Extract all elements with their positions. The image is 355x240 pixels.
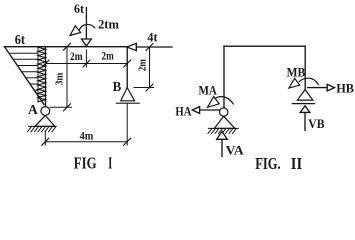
dimension 4m line xyxy=(45,141,127,143)
svg-text:MB: MB xyxy=(287,65,306,79)
svg-text:MA: MA xyxy=(199,83,217,97)
reaction HA arrowhead xyxy=(192,107,199,114)
svg-text:VB: VB xyxy=(308,117,324,131)
dimension 2m right tick bottom xyxy=(146,84,153,91)
force 4t arrowhead xyxy=(127,43,137,50)
dimension tick left xyxy=(42,60,49,67)
svg-text:4t: 4t xyxy=(147,30,158,45)
dimension 3m line xyxy=(66,47,68,108)
svg-text:II: II xyxy=(291,154,303,173)
moment MB arrowhead xyxy=(289,78,300,88)
svg-text:2m: 2m xyxy=(137,59,148,72)
support A hatching xyxy=(208,128,238,133)
svg-text:FIG.: FIG. xyxy=(255,154,281,173)
svg-text:FIG: FIG xyxy=(74,154,97,173)
dimension 3m extension line at A xyxy=(50,106,72,108)
reaction HB arrowhead xyxy=(327,84,334,91)
dimension 2m right line xyxy=(149,47,151,88)
dimension 2m separator xyxy=(85,50,87,67)
distributed load arrow zigzag xyxy=(38,47,46,102)
support triangle at A xyxy=(214,116,235,128)
svg-text:A: A xyxy=(28,103,39,118)
dimension 2m right extension line xyxy=(134,87,154,89)
moment 2tm arrowhead xyxy=(70,26,81,36)
support triangle at B xyxy=(297,90,313,101)
svg-text:B: B xyxy=(113,79,122,94)
reaction VA line xyxy=(221,139,223,156)
svg-text:2m: 2m xyxy=(70,49,83,63)
force 6t arrowhead xyxy=(82,39,92,46)
svg-text:4m: 4m xyxy=(80,129,94,143)
support B roller line xyxy=(292,103,314,105)
svg-text:HA: HA xyxy=(175,104,191,118)
svg-text:HB: HB xyxy=(336,81,354,95)
svg-text:2tm: 2tm xyxy=(98,16,119,31)
left column member xyxy=(45,47,47,107)
distributed load inner edge xyxy=(37,47,39,102)
moment MA arrowhead xyxy=(208,97,220,108)
right column member xyxy=(126,47,128,88)
force 6t line xyxy=(85,8,87,40)
svg-text:VA: VA xyxy=(226,143,244,157)
dimension 2m+2m line xyxy=(46,63,128,65)
reaction VB arrowhead xyxy=(300,106,310,113)
dimension tick middle xyxy=(83,60,90,67)
distributed load hatch lines xyxy=(9,53,40,96)
moment MB arc xyxy=(299,78,318,84)
moment 2tm arc xyxy=(79,25,94,30)
dimension 3m tick bottom xyxy=(64,104,71,111)
extension line below B xyxy=(126,103,128,145)
frame right column xyxy=(304,46,306,89)
support B triangle xyxy=(121,88,135,101)
frame left column xyxy=(223,46,225,108)
svg-text:2m: 2m xyxy=(102,49,114,63)
distributed load hypotenuse xyxy=(5,47,45,105)
support A base hatching xyxy=(28,126,57,131)
reaction HB line xyxy=(308,87,328,89)
force 4t line xyxy=(137,46,173,48)
svg-text:6t: 6t xyxy=(15,32,26,47)
frame top beam xyxy=(224,45,305,47)
dimension 2m right tick top xyxy=(146,44,153,51)
support B roller line xyxy=(116,102,139,104)
distributed load top edge xyxy=(5,46,46,48)
pin circle A xyxy=(41,107,50,116)
reaction VA arrowhead xyxy=(217,131,228,139)
reaction VB line xyxy=(304,112,306,130)
svg-text:6t: 6t xyxy=(74,1,85,16)
dimension 4m tick right xyxy=(124,138,131,145)
top beam member xyxy=(46,46,128,48)
pin circle at A xyxy=(220,108,228,116)
svg-text:I: I xyxy=(108,154,112,173)
dimension tick right xyxy=(124,60,131,67)
dimension 3m tick top xyxy=(64,43,71,50)
svg-text:3m: 3m xyxy=(55,72,66,85)
support A triangle xyxy=(35,116,55,127)
dimension 4m tick left xyxy=(42,138,49,145)
reaction HA line xyxy=(199,109,219,111)
extension line below A xyxy=(44,132,46,145)
moment MA arc xyxy=(215,97,234,104)
